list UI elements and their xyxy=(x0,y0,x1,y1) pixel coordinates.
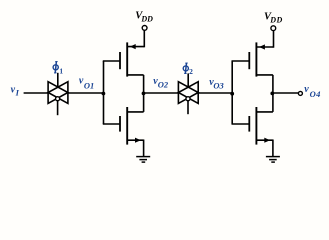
inverter1 gate bus wire xyxy=(103,61,105,124)
VDD label (inverter 2) xyxy=(264,11,283,24)
Q3 source arrow (points left) xyxy=(259,44,265,49)
svg-text:1: 1 xyxy=(59,66,63,75)
wire TG2 to inverter2 gate bus xyxy=(198,92,232,94)
wire input vI to TG1 xyxy=(24,92,48,94)
wire gate stub to PMOS Q3 xyxy=(232,60,250,62)
junction node dot at inverter1 input xyxy=(102,92,106,96)
clock label phi2 xyxy=(183,63,188,74)
Q2 source arrow (points right) xyxy=(135,138,141,143)
ground symbol (inverter 2) xyxy=(266,157,280,163)
transmission gate TG2 xyxy=(178,82,198,104)
VDD terminal circle (inverter 1) xyxy=(142,26,147,31)
wire Q2 source to ground xyxy=(143,140,145,157)
wire Q4 source to ground xyxy=(272,140,274,157)
node v_O3 label xyxy=(209,77,224,91)
output terminal circle v_O4 xyxy=(298,91,302,95)
node v_O2 label xyxy=(153,76,169,90)
wire Q2 drain up to output node xyxy=(143,93,145,112)
svg-text:DD: DD xyxy=(269,16,283,25)
junction node dot at inverter1 output xyxy=(142,92,146,96)
inverter2 gate bus wire xyxy=(231,61,233,124)
svg-text:O2: O2 xyxy=(158,80,169,90)
TG1 clock stub top xyxy=(57,73,59,88)
TG1 complement clock bubble xyxy=(56,97,60,101)
svg-text:2: 2 xyxy=(189,67,193,76)
transistor Q1 PMOS (inverter 1 pull-up) xyxy=(120,42,144,76)
transistor Q2 NMOS (inverter 1 pull-down) xyxy=(120,107,144,145)
node v_O1 label xyxy=(79,76,94,91)
TG2 complement clock bubble xyxy=(186,97,190,101)
wire Q1 drain down to output node xyxy=(143,75,145,94)
wire Q3 drain down to output node xyxy=(272,75,274,94)
wire Q4 drain up to output node xyxy=(272,93,274,112)
wire gate stub to PMOS Q1 xyxy=(103,60,120,62)
wire Q3 source to VDD terminal xyxy=(273,31,275,48)
clock label phi1 xyxy=(53,62,58,73)
VDD terminal circle (inverter 2) xyxy=(271,26,276,31)
wire TG1 to inverter1 gate bus xyxy=(68,92,104,94)
wire inverter2 output to terminal xyxy=(273,92,299,94)
wire gate stub to NMOS Q2 xyxy=(103,123,120,125)
TG2 clock stub bottom xyxy=(187,101,189,114)
Q4 source arrow (points right) xyxy=(264,138,270,143)
TG1 clock stub bottom xyxy=(57,101,59,115)
TG2 clock stub top xyxy=(187,73,189,87)
svg-text:O1: O1 xyxy=(84,81,94,91)
transmission gate TG1 xyxy=(48,82,68,104)
transistor Q4 NMOS (inverter 2 pull-down) xyxy=(249,107,273,145)
svg-text:I: I xyxy=(15,87,20,97)
transistor Q3 PMOS (inverter 2 pull-up) xyxy=(249,42,273,76)
VDD label (inverter 1) xyxy=(135,10,153,23)
svg-text:DD: DD xyxy=(140,15,153,24)
node v_O4 label xyxy=(304,84,321,99)
wire inverter1 output to TG2 xyxy=(144,92,179,94)
wire gate stub to NMOS Q4 xyxy=(232,123,250,125)
svg-text:O4: O4 xyxy=(310,89,321,99)
Q1 source arrow (points left) xyxy=(130,44,136,49)
node v_I label xyxy=(11,85,20,98)
junction node dot at inverter2 input xyxy=(230,92,234,96)
junction node dot at inverter2 output xyxy=(270,92,274,96)
svg-text:v: v xyxy=(304,84,309,95)
wire Q1 source to VDD terminal xyxy=(143,30,145,47)
ground symbol (inverter 1) xyxy=(136,157,150,163)
svg-text:O3: O3 xyxy=(213,81,224,91)
